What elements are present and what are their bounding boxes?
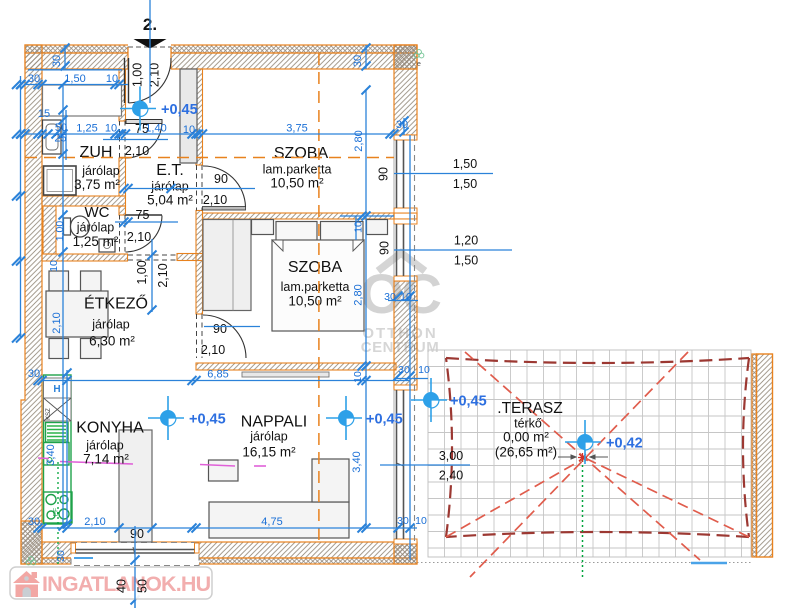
svg-text:járólap: járólap bbox=[81, 164, 120, 178]
svg-text:30: 30 bbox=[28, 73, 40, 85]
szoba1/2 wall dim bbox=[340, 215, 394, 217]
magenta electrical line bbox=[38, 458, 266, 466]
svg-text:KSZ: KSZ bbox=[46, 408, 52, 420]
terrace center marker arrows bbox=[558, 455, 608, 459]
svg-text:+0,45: +0,45 bbox=[366, 412, 403, 428]
interior wall: ZUH/ET vertical bbox=[119, 69, 126, 121]
svg-text:E.T.: E.T. bbox=[156, 162, 184, 179]
bottom wall french window bbox=[71, 543, 199, 566]
right outside vertical bbox=[409, 135, 411, 560]
svg-text:KONYHA: KONYHA bbox=[76, 420, 144, 437]
ZUH basin small verticals bbox=[62, 85, 64, 529]
svg-text:30: 30 bbox=[28, 368, 40, 380]
svg-text:2,80: 2,80 bbox=[353, 130, 365, 151]
duct shaft next to ET bbox=[180, 69, 197, 163]
opening ET to dining (cased) bbox=[128, 255, 177, 260]
dining chairs bbox=[49, 271, 69, 291]
svg-text:10: 10 bbox=[183, 124, 195, 136]
svg-text:járólap: járólap bbox=[85, 439, 124, 453]
svg-text:+0,42: +0,42 bbox=[606, 436, 643, 452]
svg-text:3,00: 3,00 bbox=[439, 449, 463, 463]
door hall to SZOBA2: opening dashes + swing bbox=[197, 314, 247, 358]
svg-text:3,40: 3,40 bbox=[351, 451, 363, 472]
svg-text:+0,45: +0,45 bbox=[189, 412, 226, 428]
interior wall: ET/SZOBA vertical upper bbox=[196, 69, 203, 165]
svg-text:25: 25 bbox=[54, 133, 66, 145]
green clover bottom-left bbox=[26, 557, 36, 565]
svg-text:WC: WC bbox=[85, 204, 110, 221]
interior wall: SZOBA1/SZOBA2 horizontal bbox=[203, 213, 395, 219]
terrace bottom dotted line bbox=[417, 562, 752, 564]
window sill short连 lines bbox=[355, 216, 357, 240]
svg-text:30: 30 bbox=[55, 550, 67, 562]
kitchen green setting-out dotted line bbox=[57, 462, 59, 565]
center red mark bbox=[578, 453, 587, 462]
window dims right bbox=[394, 173, 493, 175]
entrance axis vertical bbox=[149, 0, 151, 103]
svg-text:járólap: járólap bbox=[150, 180, 189, 194]
bedside tables bbox=[252, 220, 274, 235]
svg-text:6,30 m²: 6,30 m² bbox=[89, 334, 135, 349]
kitchen peninsula bbox=[119, 430, 152, 542]
WC vertical bbox=[62, 210, 64, 254]
svg-text:3,75 m²: 3,75 m² bbox=[74, 177, 120, 192]
entrance opening in top wall bbox=[128, 44, 171, 71]
top wall thickness ticks verticals bbox=[64, 45, 66, 69]
pillows bbox=[276, 222, 317, 242]
right wall pier between window2 and slider bbox=[394, 281, 417, 388]
svg-text:10: 10 bbox=[48, 260, 60, 272]
svg-text:(26,65 m²): (26,65 m²) bbox=[495, 445, 557, 460]
interior wall: below ZUH horizontal bbox=[42, 196, 126, 206]
svg-text:4,75: 4,75 bbox=[261, 516, 282, 528]
svg-text:2,10: 2,10 bbox=[127, 230, 151, 244]
SZOBA2 wardrobe bbox=[203, 220, 251, 311]
svg-text:+0,45: +0,45 bbox=[450, 394, 487, 410]
svg-text:ÉTKEZŐ: ÉTKEZŐ bbox=[84, 294, 148, 313]
svg-text:90: 90 bbox=[377, 167, 391, 181]
svg-text:lam.parketta: lam.parketta bbox=[263, 163, 332, 177]
WC toilet bbox=[64, 218, 71, 235]
bed bbox=[272, 240, 364, 331]
svg-text:1,00: 1,00 bbox=[131, 63, 145, 87]
svg-text:ZUH: ZUH bbox=[80, 144, 113, 161]
watermark Otthon Centrum bbox=[360, 253, 441, 356]
svg-text:15: 15 bbox=[38, 108, 50, 120]
svg-text:30: 30 bbox=[51, 55, 63, 67]
kitchen green units bbox=[44, 375, 73, 524]
svg-text:10,50 m²: 10,50 m² bbox=[288, 294, 342, 309]
interior wall stub left of szoba2 door bbox=[177, 254, 203, 261]
dining table bbox=[46, 291, 108, 337]
svg-text:2,10: 2,10 bbox=[156, 263, 170, 287]
svg-text:30: 30 bbox=[398, 364, 410, 376]
top wall upper band (cross hatch) bbox=[25, 45, 417, 53]
top wall lower band bbox=[25, 53, 417, 69]
ZUH door swing bbox=[126, 122, 163, 158]
svg-text:10: 10 bbox=[415, 515, 427, 527]
ZUH door opening dashes bbox=[120, 121, 126, 252]
window2 SZOBA2 1,20 bbox=[394, 219, 417, 281]
entrance door leaf + swing bbox=[125, 58, 172, 103]
svg-text:1,25: 1,25 bbox=[76, 123, 97, 135]
terrace door dim bbox=[380, 464, 470, 466]
svg-text:10: 10 bbox=[418, 364, 430, 376]
6,85 row bbox=[42, 380, 410, 382]
ZUH washbasin bbox=[43, 120, 62, 154]
svg-text:térkő: térkő bbox=[514, 417, 542, 431]
svg-text:6,85: 6,85 bbox=[207, 369, 228, 381]
svg-text:3,40: 3,40 bbox=[45, 444, 57, 465]
svg-text:1,00: 1,00 bbox=[135, 260, 149, 284]
left wall bottom corner cross-hatch block bbox=[21, 521, 42, 564]
svg-text:H: H bbox=[53, 384, 60, 395]
svg-text:1,20: 1,20 bbox=[454, 234, 478, 248]
svg-text:30: 30 bbox=[384, 291, 396, 303]
svg-text:járólap: járólap bbox=[91, 318, 130, 332]
ET lower opening vertical bbox=[151, 239, 153, 312]
roof overhang dashed line along right facade bbox=[414, 135, 416, 543]
ET shoe cabinet bbox=[126, 120, 162, 124]
dims over logo bbox=[134, 567, 136, 608]
roof eave dashed outline over terrace bbox=[446, 358, 749, 537]
svg-text:10: 10 bbox=[352, 371, 364, 383]
svg-text:90: 90 bbox=[378, 241, 392, 255]
svg-text:75: 75 bbox=[136, 208, 150, 222]
svg-text:lam.parketta: lam.parketta bbox=[281, 280, 350, 294]
svg-text:2,40: 2,40 bbox=[439, 469, 463, 483]
terrace center green setting-out line bbox=[582, 460, 584, 577]
roof hip diagonals bbox=[446, 352, 749, 577]
interior wall: below WC horizontal bbox=[42, 254, 128, 261]
svg-text:90: 90 bbox=[130, 527, 144, 541]
bottom-right corner block bbox=[394, 543, 417, 564]
svg-text:10: 10 bbox=[105, 123, 117, 135]
svg-text:10: 10 bbox=[353, 221, 365, 233]
orange dashed section line horizontal bbox=[25, 157, 394, 159]
black dim labels bbox=[115, 63, 479, 593]
svg-text:SZOBA: SZOBA bbox=[274, 145, 329, 162]
terrace sliding door 3,00x2,40 bbox=[394, 385, 417, 544]
svg-text:10: 10 bbox=[400, 291, 412, 303]
window1 SZOBA1 1,50 bbox=[394, 135, 417, 213]
TV board bbox=[242, 372, 329, 377]
top rows bbox=[25, 84, 128, 86]
svg-text:1,00: 1,00 bbox=[54, 221, 66, 242]
shower tray bbox=[44, 166, 77, 195]
svg-text:EF: EF bbox=[53, 508, 60, 516]
svg-text:+0,45: +0,45 bbox=[161, 102, 198, 118]
WC corner basin bbox=[99, 239, 115, 252]
interior wall: hall/SZOBA2 vertical bbox=[196, 211, 203, 315]
bottom wall diagonal band bbox=[42, 542, 417, 558]
svg-text:5,04 m²: 5,04 m² bbox=[147, 193, 193, 208]
svg-text:1,50: 1,50 bbox=[454, 254, 478, 268]
svg-text:e: e bbox=[417, 61, 421, 68]
svg-text:járólap: járólap bbox=[249, 430, 288, 444]
bottom row 2,10 / 4,75 bbox=[42, 527, 417, 529]
terrace paving grid bbox=[428, 350, 751, 557]
WC door swing bbox=[126, 216, 163, 253]
svg-text:0,00 m²: 0,00 m² bbox=[503, 430, 549, 445]
svg-text:30: 30 bbox=[397, 515, 409, 527]
svg-text:3,75: 3,75 bbox=[286, 123, 307, 135]
right interior long vertical bbox=[365, 90, 367, 528]
side table nappali bbox=[209, 460, 239, 481]
right wall middle block at szoba divider bbox=[394, 213, 417, 219]
interior wall: WC west strip bbox=[43, 206, 56, 254]
svg-text:90: 90 bbox=[214, 172, 228, 186]
svg-text:NAPPALI: NAPPALI bbox=[241, 414, 307, 431]
svg-text:1,25 m²: 1,25 m² bbox=[73, 234, 119, 249]
svg-text:2,10: 2,10 bbox=[51, 312, 63, 333]
light blue short segment bottom right terrace bbox=[691, 562, 727, 565]
crosshairs bbox=[120, 87, 156, 131]
svg-text:7,14 m²: 7,14 m² bbox=[83, 452, 129, 467]
svg-text:30: 30 bbox=[28, 516, 40, 528]
svg-text:1,50: 1,50 bbox=[64, 73, 85, 85]
svg-text:16,15 m²: 16,15 m² bbox=[242, 445, 296, 460]
bottom wall lower cross band bbox=[42, 558, 417, 564]
terrace right garden wall bbox=[752, 354, 757, 557]
svg-text:1,50: 1,50 bbox=[453, 157, 477, 171]
svg-text:SZOBA: SZOBA bbox=[288, 259, 343, 276]
left outside vertical bbox=[20, 76, 22, 338]
svg-text:30: 30 bbox=[352, 55, 364, 67]
svg-text:10: 10 bbox=[106, 73, 118, 85]
svg-text:90: 90 bbox=[213, 322, 227, 336]
door ET to SZOBA1: opening dashes, leaf, swing bbox=[197, 165, 246, 211]
svg-text:2,80: 2,80 bbox=[353, 284, 365, 305]
svg-text:50: 50 bbox=[136, 579, 150, 593]
door dim lines interior bbox=[128, 188, 255, 190]
green clover top-right bbox=[414, 50, 424, 58]
interior wall: WC east jamb bbox=[119, 206, 126, 215]
svg-text:1,40: 1,40 bbox=[145, 123, 166, 135]
svg-text:2,10: 2,10 bbox=[201, 343, 225, 357]
svg-text:járólap: járólap bbox=[76, 221, 115, 235]
svg-text:30: 30 bbox=[396, 119, 408, 131]
interior wall: SZOBA2/NAPPALI horizontal bbox=[196, 363, 396, 370]
ZUH closet bbox=[43, 85, 122, 116]
svg-text:40: 40 bbox=[115, 579, 129, 593]
sofa bbox=[209, 502, 349, 538]
svg-text:10,50 m²: 10,50 m² bbox=[270, 176, 324, 191]
svg-text:2,10: 2,10 bbox=[125, 144, 149, 158]
orange dashed section line vertical bbox=[318, 53, 320, 542]
svg-text:1,50: 1,50 bbox=[453, 177, 477, 191]
svg-text:.TERASZ: .TERASZ bbox=[497, 400, 562, 417]
left wall bbox=[21, 45, 42, 564]
svg-text:2,10: 2,10 bbox=[203, 193, 227, 207]
konyha vertical bbox=[66, 370, 68, 526]
entrance arrow + label bbox=[134, 39, 167, 49]
svg-text:2,10: 2,10 bbox=[84, 516, 105, 528]
bottom long vertical at logo bbox=[134, 526, 136, 608]
right wall top pier bbox=[394, 45, 417, 135]
